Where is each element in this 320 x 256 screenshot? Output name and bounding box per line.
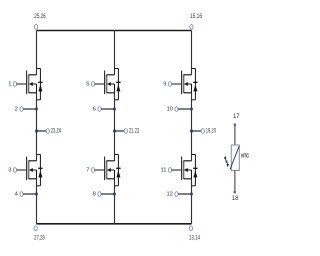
svg-text:25,26: 25,26	[34, 14, 46, 20]
svg-text:27,28: 27,28	[34, 235, 45, 241]
svg-text:11: 11	[160, 167, 166, 173]
svg-text:7: 7	[86, 167, 89, 173]
svg-text:17: 17	[233, 114, 240, 120]
svg-text:9: 9	[163, 81, 166, 87]
svg-text:2: 2	[15, 107, 18, 113]
svg-text:8: 8	[93, 192, 96, 198]
svg-text:18: 18	[232, 196, 239, 202]
svg-text:6: 6	[93, 107, 96, 113]
svg-text:13,14: 13,14	[189, 235, 200, 241]
svg-text:19,20: 19,20	[206, 129, 217, 135]
svg-text:4: 4	[15, 192, 19, 198]
svg-text:10: 10	[166, 107, 172, 113]
svg-text:15,16: 15,16	[190, 14, 203, 20]
svg-text:21,22: 21,22	[129, 129, 140, 135]
svg-text:NTC: NTC	[241, 153, 249, 159]
svg-text:12: 12	[166, 192, 172, 198]
svg-text:3: 3	[8, 167, 11, 173]
svg-text:1: 1	[8, 81, 11, 87]
svg-text:5: 5	[86, 81, 89, 87]
svg-text:23,24: 23,24	[51, 129, 62, 135]
